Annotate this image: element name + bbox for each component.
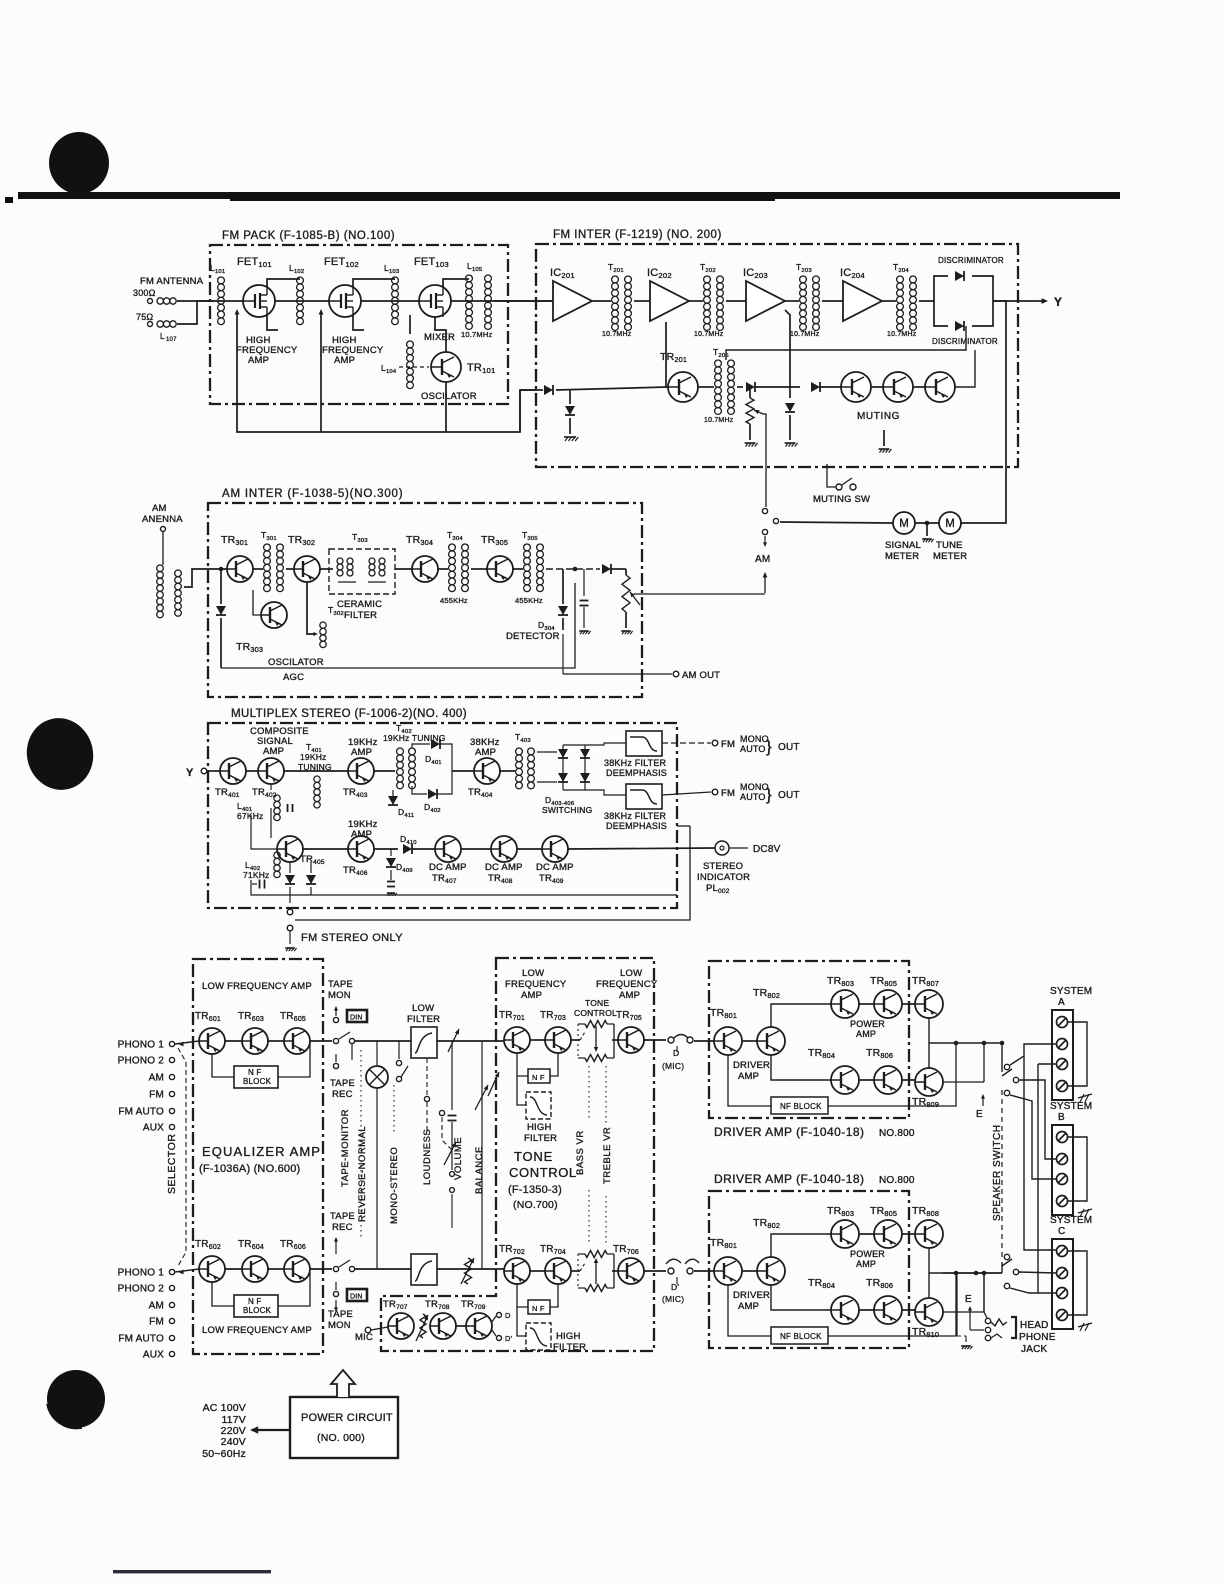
transistor TR201: [660, 351, 698, 402]
svg-text:SYSTEM: SYSTEM: [1050, 1101, 1092, 1112]
transistor TR304: [406, 534, 438, 582]
svg-text:TONE: TONE: [585, 998, 609, 1008]
transistor TR702: [499, 1244, 530, 1284]
svg-text:C: C: [1058, 1226, 1065, 1237]
transistor TR704: [540, 1244, 571, 1284]
wire FM main line: [197, 300, 553, 302]
svg-text:D': D': [505, 1334, 513, 1343]
wire stereo only to loop: [295, 826, 690, 920]
diode discriminator upper: [938, 256, 1004, 281]
transistor TR604: [238, 1239, 268, 1282]
svg-text:455KHz: 455KHz: [515, 596, 543, 605]
coil L104: [407, 341, 414, 389]
wire: [742, 1040, 757, 1042]
svg-text:BLOCK: BLOCK: [243, 1306, 272, 1315]
svg-text:MONO: MONO: [740, 734, 769, 744]
ground hatch: [1078, 1209, 1092, 1217]
transistor TR601: [195, 1011, 225, 1054]
wire oscillator output: [445, 382, 447, 432]
transistor TR605: [280, 1011, 310, 1054]
amplifier IC203: [743, 267, 785, 321]
svg-text:DRIVER: DRIVER: [733, 1060, 770, 1071]
svg-text:TAPE: TAPE: [328, 1309, 353, 1320]
wire NF loop top: [212, 1054, 234, 1077]
headphone switch: [957, 1273, 991, 1341]
wire switch to B2: [1019, 1080, 1056, 1159]
wire: [859, 1079, 874, 1081]
svg-text:DEEMPHASIS: DEEMPHASIS: [606, 821, 667, 831]
transistor TR409 DC amp: [536, 836, 574, 885]
svg-text:10.7MHz: 10.7MHz: [790, 331, 820, 338]
wire to FM out upper: [662, 742, 711, 744]
wire D401 to junction: [440, 744, 452, 771]
svg-text:AUX: AUX: [143, 1123, 164, 1134]
wire TR305 out: [513, 568, 523, 570]
node AUX top input: [143, 1123, 175, 1134]
ground: [564, 436, 576, 438]
svg-text:CONTROL: CONTROL: [574, 1008, 617, 1018]
screw terminal A2: [1057, 1039, 1068, 1050]
svg-text:METER: METER: [933, 551, 967, 562]
svg-text:STEREO: STEREO: [703, 861, 743, 872]
node E: [976, 1094, 985, 1120]
svg-text:PHONO 1: PHONO 1: [118, 1268, 165, 1279]
antenna coil bar: [157, 565, 182, 618]
headphone jack: [991, 1317, 1056, 1355]
tone pots top: [571, 1021, 614, 1062]
ground: [785, 442, 796, 444]
svg-text:DC AMP: DC AMP: [429, 862, 467, 873]
pot arrow mic: [416, 1315, 428, 1341]
coil L103: [392, 277, 399, 325]
svg-text:TAPE: TAPE: [328, 979, 353, 990]
screw terminal C1: [1057, 1246, 1068, 1257]
svg-text:10.7MHz: 10.7MHz: [887, 331, 917, 338]
wire discriminator branches: [919, 276, 948, 301]
wire bass gang: [588, 1066, 590, 1118]
wire reverse-normal gang: [360, 1050, 362, 1240]
wire: [517, 848, 542, 850]
diode D202: [785, 387, 795, 440]
amplifier IC202: [647, 267, 689, 321]
diode discriminator lower: [932, 321, 998, 346]
svg-text:POWER CIRCUIT: POWER CIRCUIT: [301, 1412, 393, 1424]
wire FET103 drain loop: [443, 279, 469, 287]
node FM STEREO ONLY: [285, 909, 403, 951]
svg-text:LOW: LOW: [522, 968, 544, 979]
NF block bottom: [234, 1295, 278, 1317]
wire: [268, 1040, 284, 1042]
svg-text:SYSTEM: SYSTEM: [1050, 1215, 1092, 1226]
transistor TR801: [710, 1237, 742, 1285]
wire treble gang: [605, 1066, 607, 1125]
wire driver input: [694, 1040, 714, 1042]
transistor TR805 power: [850, 975, 902, 1039]
wire: [225, 1268, 242, 1270]
svg-text:BLOCK: BLOCK: [243, 1077, 272, 1086]
diode agc: [216, 606, 226, 668]
IF transformer L105 10.7MHz: [461, 261, 492, 339]
coil L102: [297, 277, 304, 325]
svg-text:AMP: AMP: [856, 1259, 876, 1269]
wire mpx lower bus: [251, 880, 677, 895]
wire output rail: [928, 1018, 930, 1068]
AC voltage labels: [202, 1402, 246, 1460]
svg-text:AC 100V: AC 100V: [203, 1402, 246, 1414]
filter low bottom box: [411, 1254, 437, 1285]
svg-text:BASS VR: BASS VR: [575, 1130, 586, 1175]
high filter box bottom: [517, 1307, 586, 1353]
svg-text:TONE: TONE: [514, 1149, 553, 1164]
IF transformer T301: [261, 530, 283, 592]
transistor TR805 power: [850, 1205, 902, 1269]
FET103 mixer: [414, 256, 455, 343]
screw terminal C2: [1057, 1268, 1068, 1279]
svg-text:NF BLOCK: NF BLOCK: [780, 1102, 822, 1111]
svg-text:NO.800: NO.800: [879, 1175, 915, 1186]
transistor TR402: [250, 726, 309, 799]
node D' MIC out bottom: [644, 1259, 699, 1304]
screw terminal C3: [1057, 1288, 1068, 1299]
wire E headphone branch: [956, 1273, 958, 1336]
svg-text:}: }: [766, 737, 772, 756]
node PHONO 1 top input: [118, 1040, 175, 1051]
svg-text:MUTING: MUTING: [857, 411, 900, 422]
svg-text:M: M: [899, 518, 909, 530]
wire speaker switch gang: [1001, 1090, 1003, 1258]
svg-text:PHONE: PHONE: [1019, 1332, 1056, 1343]
wire TR304 out: [438, 568, 448, 570]
IF transformer T305 455KHz: [515, 530, 543, 605]
wire TR401-TR402: [246, 770, 258, 772]
svg-text:10.7MHz: 10.7MHz: [602, 331, 632, 338]
block MULTIPLEX STEREO (F-1006-2)(NO.400): [208, 708, 677, 908]
svg-text:TAPE: TAPE: [330, 1078, 355, 1089]
diode D203: [811, 382, 820, 392]
power arrow up: [331, 1370, 355, 1397]
wire tone to TR706: [612, 1270, 618, 1272]
NF box bottom: [517, 1284, 558, 1314]
pot volume bottom: [465, 1258, 472, 1284]
wire TR403 out: [374, 770, 395, 772]
transistor TR806 power: [866, 1047, 902, 1094]
svg-text:AMP: AMP: [738, 1301, 759, 1312]
filter low top box: [407, 1003, 440, 1058]
diode D401: [425, 739, 442, 766]
svg-text:AMP: AMP: [521, 990, 542, 1001]
svg-text:N F: N F: [532, 1073, 545, 1082]
wire filter out bottom: [437, 1268, 516, 1270]
switch tape monitor top: [333, 1032, 354, 1044]
diode D201: [746, 382, 755, 392]
node E bottom: [965, 1294, 972, 1330]
transistor TR305: [481, 534, 513, 582]
wire input cap branch: [569, 390, 571, 404]
svg-text:TUNE: TUNE: [936, 540, 963, 551]
svg-text:75Ω: 75Ω: [136, 312, 153, 322]
antenna coil L107: [157, 321, 163, 327]
svg-text:AM OUT: AM OUT: [682, 670, 720, 681]
wire T205 to diode: [737, 386, 743, 388]
transistor TR705: [616, 1010, 644, 1053]
wire to TR404: [452, 770, 474, 772]
wire TR406 out: [374, 848, 398, 850]
amplifier IC201: [550, 267, 592, 321]
transistor TR804 power: [808, 1047, 859, 1094]
screw terminal B1: [1057, 1132, 1068, 1143]
transistor 810 power out: [912, 1298, 943, 1339]
antenna coil 300ohm: [157, 298, 163, 304]
svg-text:(MIC): (MIC): [662, 1061, 684, 1071]
svg-text:FM INTER (F-1219) (NO. 200): FM INTER (F-1219) (NO. 200): [553, 229, 722, 241]
ground: [621, 630, 631, 632]
wire switching to filters: [585, 743, 626, 745]
transistor muting Q2: [883, 372, 913, 402]
wire: [268, 1268, 284, 1270]
svg-text:FM: FM: [149, 1090, 164, 1101]
wire IC201 out: [592, 300, 611, 302]
svg-text:Y: Y: [1054, 295, 1062, 309]
coil L101: [218, 277, 225, 325]
FET102 high frequency amp: [322, 256, 384, 366]
screw terminal B4: [1057, 1196, 1068, 1207]
switch loudness low: [450, 1188, 455, 1228]
wire T403 to switching: [537, 751, 557, 753]
wire TR605 out: [310, 1040, 332, 1042]
coil L402 71KHz: [243, 852, 280, 880]
svg-text:SPEAKER SWITCH: SPEAKER SWITCH: [992, 1125, 1003, 1221]
transistor TR701: [499, 1010, 530, 1053]
wire antenna to TR301: [184, 569, 227, 587]
wire AC input arrow: [250, 1426, 290, 1433]
ground hatch: [1078, 1323, 1092, 1331]
svg-text:PHONO 2: PHONO 2: [118, 1056, 165, 1067]
node TAPE MON top: [328, 979, 353, 1023]
wire TR606 out: [310, 1268, 332, 1270]
transistor TR804 power: [808, 1277, 859, 1324]
transistor TR408 DC amp: [485, 836, 523, 885]
svg-text:M: M: [945, 518, 955, 530]
block FM PACK (F-1085-B) (NO.100): [210, 230, 508, 404]
transistor TR803 power: [827, 1205, 859, 1248]
wire T201 out: [634, 300, 650, 302]
svg-text:TAPE-MONITOR: TAPE-MONITOR: [340, 1109, 351, 1187]
svg-text:MONO-STEREO: MONO-STEREO: [389, 1147, 400, 1224]
svg-text:NO.800: NO.800: [879, 1128, 915, 1139]
wire to indicator: [568, 848, 715, 849]
coil T302: [320, 605, 344, 648]
svg-text:OSCILATOR: OSCILATOR: [421, 391, 477, 402]
svg-text:DIN: DIN: [350, 1015, 363, 1022]
wire IC203 out: [785, 300, 799, 302]
svg-text:FILTER: FILTER: [407, 1014, 440, 1025]
screw terminal A1: [1057, 1017, 1068, 1028]
meter tune: [933, 512, 967, 562]
transistor muting Q1: [841, 372, 871, 402]
svg-text:AM INTER (F-1038-5)(NO.300): AM INTER (F-1038-5)(NO.300): [222, 488, 403, 500]
pot arrow balance: [475, 1085, 488, 1110]
svg-text:AMP: AMP: [475, 747, 496, 758]
capacitor det: [580, 569, 589, 628]
svg-text:}: }: [766, 785, 772, 804]
svg-text:455KHz: 455KHz: [440, 596, 468, 605]
transistor TR709: [461, 1299, 492, 1339]
pot balance: [481, 1041, 483, 1269]
wire: [902, 1003, 915, 1005]
svg-text:N F: N F: [248, 1068, 262, 1077]
punch hole middle: [19, 711, 100, 797]
wire agc junction: [220, 569, 222, 604]
wire: [902, 1079, 915, 1081]
wire to pot: [611, 568, 626, 570]
svg-text:ANENNA: ANENNA: [142, 514, 183, 525]
svg-text:Y: Y: [186, 767, 194, 779]
svg-text:LOW FREQUENCY AMP: LOW FREQUENCY AMP: [202, 1325, 312, 1336]
wire T202 out: [726, 300, 746, 302]
DIN connector top: [347, 1010, 367, 1022]
wire: [902, 1233, 915, 1235]
IF transformer T201: [602, 262, 632, 338]
transistor TR302: [288, 534, 320, 582]
svg-text:AMP: AMP: [351, 747, 372, 758]
node TAPE REC top: [330, 1044, 355, 1100]
loudness network: [439, 1110, 452, 1150]
svg-text:(MIC): (MIC): [662, 1294, 684, 1304]
transistor TR603: [238, 1011, 268, 1054]
wire muting: [913, 386, 925, 388]
pot volume: [448, 1041, 457, 1176]
svg-text:FREQUENCY: FREQUENCY: [505, 979, 567, 990]
diode D409: [386, 849, 413, 896]
svg-text:MONO: MONO: [740, 782, 769, 792]
wire selector gang: [178, 1048, 186, 1266]
svg-text:AMP: AMP: [248, 355, 269, 366]
wire muting: [871, 386, 883, 388]
transistor TR801: [710, 1007, 742, 1055]
node PHONO 2 top input: [118, 1056, 175, 1067]
wire between meters: [915, 522, 939, 524]
meter signal: [885, 512, 921, 562]
wire T304 out: [471, 568, 487, 570]
svg-text:DISCRIMINATOR: DISCRIMINATOR: [932, 337, 998, 346]
svg-text:FM: FM: [721, 739, 735, 750]
lamp dial: [366, 1041, 388, 1269]
wire T303 out: [395, 568, 412, 570]
node D MIC out top: [644, 1035, 693, 1072]
svg-text:10.7MHz: 10.7MHz: [461, 330, 492, 339]
wire TR302 out: [320, 568, 333, 570]
node Y output: [1030, 295, 1062, 309]
switch FM/AM meter: [762, 473, 778, 535]
node TAPE REC bottom: [330, 1211, 355, 1254]
wire AGC feedback bus: [237, 311, 520, 432]
svg-text:DEEMPHASIS: DEEMPHASIS: [606, 768, 667, 778]
resistor mic: [420, 1314, 426, 1338]
svg-text:DISCRIMINATOR: DISCRIMINATOR: [938, 256, 1004, 265]
svg-text:A: A: [1058, 997, 1065, 1008]
node FM AUTO bottom input: [118, 1334, 174, 1345]
svg-text:PHONO 2: PHONO 2: [118, 1284, 165, 1295]
svg-text:D: D: [505, 1311, 511, 1320]
svg-text:FM AUTO: FM AUTO: [118, 1334, 164, 1345]
wire mono gang: [393, 1085, 395, 1133]
svg-text:AUTO: AUTO: [740, 792, 766, 802]
node FM top input: [149, 1090, 174, 1101]
svg-text:DRIVER: DRIVER: [733, 1290, 770, 1301]
svg-text:38KHz FILTER: 38KHz FILTER: [604, 758, 667, 768]
resistor det pot: [622, 569, 630, 628]
svg-text:AM: AM: [149, 1301, 164, 1312]
top rule: [18, 192, 1120, 199]
IF transformer T202: [694, 262, 724, 338]
screw terminal C4: [1057, 1310, 1068, 1321]
diode fm input: [544, 385, 553, 395]
ground meters: [922, 523, 933, 542]
svg-text:FM ANTENNA: FM ANTENNA: [140, 276, 204, 287]
transistor TR802 driver: [733, 1217, 785, 1312]
wire A3 feed: [1038, 1063, 1056, 1065]
transistor muting Q3: [857, 372, 955, 422]
svg-text:EQUALIZER AMP: EQUALIZER AMP: [202, 1144, 321, 1159]
switch speaker top: [1000, 1041, 1019, 1096]
wire switch to A2: [1010, 1044, 1056, 1065]
IF transformer T203: [790, 262, 820, 338]
svg-text:(NO. 000): (NO. 000): [317, 1432, 365, 1444]
svg-text:HIGH: HIGH: [527, 1122, 552, 1133]
svg-text:L: L: [160, 332, 165, 341]
wire FET101 drain loop: [267, 279, 300, 287]
wire IC203 muting branch: [785, 310, 790, 387]
diode mpx sw1: [285, 862, 295, 903]
wire meter bus to switch: [780, 522, 893, 523]
svg-text:DRIVER AMP (F-1040-18): DRIVER AMP (F-1040-18): [714, 1172, 864, 1186]
wire: [225, 1040, 242, 1042]
filter 38KHz deemphasis upper: [604, 731, 667, 778]
svg-text:MON: MON: [328, 1320, 351, 1331]
wire SYSTEM A return: [1068, 1022, 1087, 1086]
ceramic filter T303: [329, 532, 395, 621]
svg-text:DC AMP: DC AMP: [485, 862, 523, 873]
wire L105 output: [495, 300, 553, 302]
svg-text:AMP: AMP: [738, 1071, 759, 1082]
svg-text:N F: N F: [532, 1304, 545, 1313]
node AM top input: [149, 1073, 175, 1084]
NF BLOCK: [728, 1043, 956, 1114]
svg-text:BALANCE: BALANCE: [474, 1146, 485, 1194]
svg-text:10.7MHz: 10.7MHz: [694, 331, 724, 338]
svg-text:OSCILATOR: OSCILATOR: [268, 657, 324, 668]
switch MUTING SW: [813, 464, 870, 505]
node AUX bottom input: [143, 1350, 175, 1361]
diode clamp: [565, 406, 575, 415]
svg-text:NF BLOCK: NF BLOCK: [780, 1332, 822, 1341]
wire IC202 to TR201: [666, 322, 668, 387]
bottom rule: [113, 1570, 271, 1573]
transistor TR708: [425, 1299, 456, 1339]
wire FET101 source: [267, 315, 278, 330]
svg-text:AMP: AMP: [263, 746, 284, 757]
pot arrow volume: [444, 1142, 456, 1165]
svg-text:CONTROL: CONTROL: [509, 1165, 577, 1180]
svg-text:DC AMP: DC AMP: [536, 862, 574, 873]
transformer T402 19KHz tuning: [383, 723, 446, 789]
speaker terminal strip SYSTEM B: [1050, 1101, 1092, 1215]
wire muting feed: [726, 326, 966, 360]
transistor TR806 power: [866, 1277, 902, 1324]
resistor muting level: [746, 387, 754, 440]
svg-text:AMP: AMP: [334, 355, 355, 366]
svg-text:N F: N F: [248, 1297, 262, 1306]
